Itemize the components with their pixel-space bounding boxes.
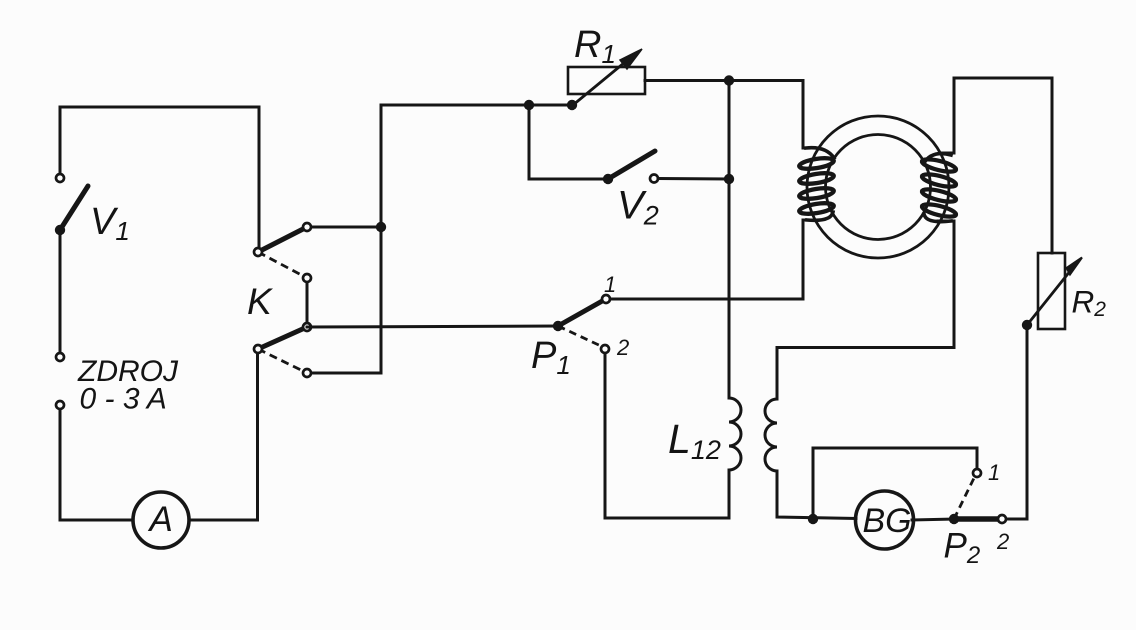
terminal circle K upper common: [254, 248, 262, 256]
resistor R2 body: [1038, 253, 1065, 329]
svg-text:V2: V2: [617, 184, 659, 231]
switch P2 pivot dot: [949, 514, 959, 524]
galvanometer BG circle: [856, 491, 914, 549]
switch V2 lever: [608, 151, 655, 179]
switch V1 pivot dot: [55, 225, 65, 235]
inductor L1 (coil A): [729, 398, 741, 470]
resistor R2 wiper dot: [1022, 320, 1032, 330]
terminal circle P2 throw2: [998, 515, 1006, 523]
terminal circle P2 throw1: [973, 469, 981, 477]
svg-text:1: 1: [604, 272, 616, 297]
switch P1 common wire from K: [307, 326, 558, 327]
switch K lower dashed throw: [258, 349, 307, 373]
svg-text:0 - 3 A: 0 - 3 A: [80, 383, 167, 416]
wire BG bypass to P2 throw1: [813, 448, 977, 519]
resistor R1 wiper arrow: [573, 58, 630, 105]
junction dot V2 output: [724, 174, 734, 184]
svg-text:K: K: [247, 281, 274, 322]
svg-text:BG: BG: [863, 502, 912, 540]
terminal circle K lower throw2: [303, 369, 311, 377]
wire K middle link: [306, 278, 309, 327]
wire K lower throw to bus: [307, 105, 529, 373]
switch V1 lever: [60, 186, 88, 230]
terminal circle V2: [650, 175, 658, 183]
terminal circle P1 throw2: [601, 345, 609, 353]
wire V2 branch left: [529, 105, 608, 179]
wire V2 to junction: [658, 177, 729, 181]
resistor R2 wiper arrow: [1027, 270, 1071, 325]
terminal circle K lower throw1: [303, 323, 311, 331]
wire toroid right winding top to R2: [941, 78, 1052, 253]
wire R1 output: [645, 81, 818, 149]
terminal circle P1 throw1: [602, 295, 610, 303]
svg-text:P1: P1: [531, 335, 571, 380]
svg-text:P2: P2: [944, 527, 981, 570]
svg-text:1: 1: [988, 460, 1000, 485]
switch P1 solid lever: [558, 300, 604, 326]
switch K upper solid lever: [258, 227, 307, 252]
wire R2 down to P2 throw2: [1006, 325, 1027, 519]
switch P1 pivot dot: [553, 321, 563, 331]
wire ammeter right to K lower common: [189, 353, 258, 520]
svg-text:2: 2: [996, 529, 1009, 554]
toroid core outer: [807, 116, 949, 258]
terminal circle ZDROJ top: [56, 353, 64, 361]
switch P2 dashed lever: [954, 476, 975, 519]
wire P1 throw1 to toroid left winding bottom: [610, 220, 820, 299]
switch K upper dashed throw: [258, 252, 307, 278]
toroid right winding: [921, 154, 957, 222]
junction dot K bus: [376, 222, 386, 232]
switch K lower solid lever: [258, 327, 307, 349]
wire top-left loop: [60, 107, 259, 248]
switch V2 pivot dot: [603, 174, 613, 184]
wire V1 to ZDROJ terminal: [59, 230, 62, 353]
terminal circle K upper throw1: [303, 223, 311, 231]
terminal circle K lower common: [254, 345, 262, 353]
terminal circle K upper throw2: [303, 274, 311, 282]
svg-text:L12: L12: [668, 416, 721, 465]
switch P1 dashed throw: [558, 326, 603, 347]
resistor R1 input dot: [567, 100, 577, 110]
wire top bus to R1: [529, 104, 572, 107]
svg-text:V1: V1: [90, 201, 130, 246]
svg-text:R2: R2: [1072, 284, 1107, 322]
wire coil A bottom to P1 throw2: [605, 353, 729, 518]
terminal circle top of V1: [56, 174, 64, 182]
wire primary bus down to coil L1: [728, 81, 731, 399]
toroid left winding: [798, 148, 834, 221]
wire toroid right winding bottom to coil B: [777, 221, 954, 399]
svg-text:A: A: [148, 500, 173, 539]
ammeter A circle: [133, 492, 189, 548]
resistor R1 body: [568, 67, 645, 94]
switch P2 solid lever: [954, 516, 997, 522]
terminal circle ZDROJ bottom: [56, 401, 64, 409]
svg-text:R1: R1: [574, 24, 616, 69]
junction dot top bus: [524, 100, 534, 110]
wire coil B bottom to BG: [777, 471, 856, 519]
junction dot BG left: [808, 514, 818, 524]
toroid core inner: [826, 135, 931, 240]
junction dot R1 output at L12 bus: [724, 75, 734, 85]
svg-text:2: 2: [616, 335, 629, 360]
inductor L2 (coil B): [765, 399, 777, 471]
wire left bottom: [60, 409, 133, 520]
wire K upper throw to bus: [307, 226, 381, 229]
wire BG right to P2: [912, 519, 954, 520]
